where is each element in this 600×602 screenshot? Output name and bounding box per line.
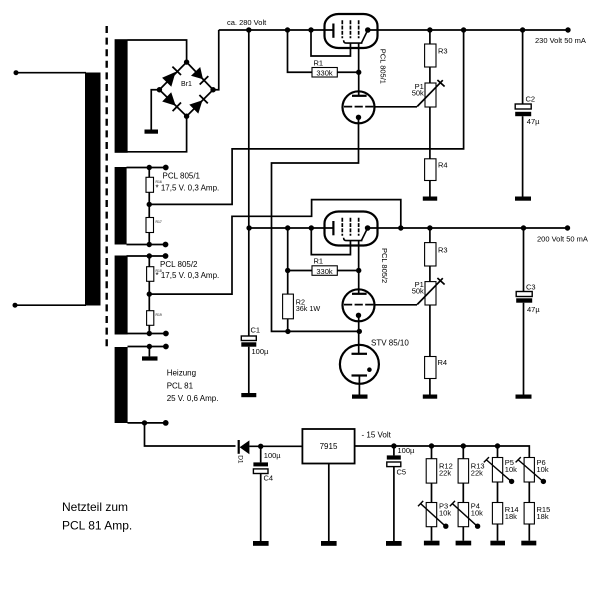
svg-text:330k: 330k [316,69,333,78]
svg-text:STV 85/10: STV 85/10 [371,339,409,348]
svg-text:50k: 50k [412,287,424,296]
svg-text:10k: 10k [537,465,549,474]
ground under P6/R15 [521,541,536,546]
ground under R4 lower [423,395,437,399]
svg-text:- 15 Volt: - 15 Volt [362,430,392,439]
wire rail1 left segment [219,29,334,31]
potentiometer P1 upper [425,83,436,107]
transformer secondary winding 3 [115,256,128,335]
wire pentode2 anode to node [358,241,360,271]
ground under STV [352,395,368,399]
node triode2 anode junction [357,329,362,334]
svg-text:200 Volt 50 mA: 200 Volt 50 mA [537,235,588,244]
wire P1 lower to R4 lower [429,305,431,357]
wire R3 to P1 [429,67,431,83]
svg-text:* 17,5 V. 0,3 Amp.: * 17,5 V. 0,3 Amp. [156,271,220,280]
node rail1 x430 [427,27,432,32]
wire rail2 right segment [368,227,568,229]
wire STV to ground [358,376,360,395]
svg-text:10k: 10k [439,508,451,517]
potentiometer P3 10k [426,503,437,527]
resistor heater divider 2a [148,168,150,178]
ground under C1 [241,393,256,397]
resistor R4 lower [425,357,436,379]
node rail2 x430 [427,225,432,230]
resistor R3 upper [425,44,436,67]
ground under 7915 [321,541,337,546]
node rail2 end terminal [565,225,570,230]
svg-text:R3: R3 [438,245,448,254]
node rail1 x249 [246,27,251,32]
wire rail2 left segment [249,227,334,229]
svg-text:7915: 7915 [320,442,338,451]
svg-text:C1: C1 [251,326,261,335]
ground winding4 [142,356,158,360]
svg-text:* 17,5 V. 0,3 Amp.: * 17,5 V. 0,3 Amp. [156,184,220,193]
node rail2 x249 [246,225,251,230]
diode bridge top-right [191,67,203,79]
svg-text:R17: R17 [156,220,162,224]
wire P1 to R4 [429,107,431,159]
svg-text:10k: 10k [505,465,517,474]
node rail2 x287 [285,225,290,230]
node rail2 x523 [521,225,526,230]
ground under C2 [515,197,531,201]
wire line C from rail1 to winding2 tap [149,30,463,204]
node rail1 x463 [461,27,466,32]
svg-text:Heizung: Heizung [167,369,196,378]
tube pentode PCL805/1 [325,14,378,48]
svg-text:PCL 805/1: PCL 805/1 [163,172,201,181]
wire rail1 to R3 [429,30,431,44]
tube triode PCL805/1 [343,91,376,123]
wire winding3 bottom lead [127,333,166,335]
potentiometer P5 10k [497,446,499,458]
node rail1 x522 [520,27,525,32]
svg-text:D1: D1 [237,455,244,464]
svg-text:22k: 22k [471,469,483,478]
diode bridge bottom-right [189,100,202,113]
node primary top terminal [14,70,19,75]
node rail2 x311 [309,225,314,230]
svg-text:230 Volt 50 mA: 230 Volt 50 mA [535,36,586,45]
node R2 bottom junction [285,329,290,334]
bridge rectifier Br1 [157,59,216,119]
capacitor C4 [260,446,262,462]
diode bridge top-left [162,72,176,87]
wire triode2 grid lead [375,304,418,306]
transformer primary winding [85,73,101,306]
transformer secondary winding 2 [115,167,127,245]
ground under P5/R14 [490,541,505,546]
tube pentode PCL805/2 [325,212,378,246]
node bridge bottom [184,114,189,119]
svg-text:100µ: 100µ [398,446,416,455]
tube triode PCL805/2 [343,289,376,321]
transformer core dashed line [105,26,107,347]
wire triode1 anode path [272,117,360,331]
svg-text:C4: C4 [264,473,274,482]
svg-text:47µ: 47µ [527,117,540,126]
wire winding1 top lead [128,40,187,62]
svg-text:18k: 18k [537,512,549,521]
node primary bottom terminal [13,303,18,308]
wire triode2 anode lead to STV [358,315,360,354]
resistor heater divider 3b [147,311,154,326]
capacitor C3 [523,228,525,292]
svg-text:R1: R1 [314,257,324,266]
svg-text:22k: 22k [439,469,451,478]
wire 7915 output rail [355,446,530,458]
node R13 junction [461,443,466,448]
wire primary top [16,72,86,74]
node R1/1 right junction [356,70,361,75]
ground under C4 [253,541,269,546]
svg-text:100µ: 100µ [252,347,270,356]
wire g2 loop tube2 [311,228,350,255]
svg-text:10k: 10k [471,508,483,517]
wire winding4 top lead [128,346,166,348]
wire triode2 cathode lead [358,271,360,294]
node R1/2 right junction [356,268,361,273]
resistor R15 18k [524,503,534,525]
node bridge right [210,87,215,92]
resistor R3 lower [425,243,436,266]
node P5 junction [495,443,500,448]
wire primary bottom [15,304,86,306]
resistor R12 22k [431,446,433,459]
potentiometer P6 10k [524,458,534,483]
node rail1 x311 [308,27,313,32]
ground under R13/P4 [456,541,472,546]
wire winding4 to D1 [145,423,236,446]
wire 7915 ground lead [328,464,330,542]
svg-text:PCL 805/2: PCL 805/2 [380,248,389,283]
wire winding3 tap step line [149,200,400,295]
svg-text:R19: R19 [156,313,162,317]
resistor R13 22k [462,446,464,459]
svg-text:Br1: Br1 [181,81,192,88]
wire R1/2 right [337,270,358,272]
ground under R4 upper [423,197,437,201]
svg-text:C5: C5 [397,467,407,476]
wire winding4 ground stub [148,347,150,357]
wire winding1 bottom lead [128,116,187,152]
diode bridge bottom-left [162,92,176,105]
svg-text:ca. 280 Volt: ca. 280 Volt [227,18,267,27]
wire winding3 top lead [127,255,166,257]
svg-text:Netzteil zum: Netzteil zum [62,500,128,514]
svg-text:PCL 81: PCL 81 [167,382,194,391]
resistor heater divider 3a [148,256,150,267]
regulator 7915 [302,429,354,464]
wire R1/2 feed [288,228,312,271]
wire D1 to 7915 [249,445,302,447]
resistor heater divider 2b [146,218,154,233]
svg-text:C2: C2 [526,95,536,104]
wire R1/1 right [337,71,358,73]
resistor R14 18k [492,503,502,525]
node C4 junction [258,444,263,449]
wire winding2 bottom lead [127,244,166,246]
resistor R1 (330k) upper [312,68,337,78]
resistor R1 (330k) lower [312,266,337,276]
potentiometer P4 10k [458,503,469,527]
svg-text:PCL 805/2: PCL 805/2 [160,260,198,269]
wire winding4 bottom lead [128,422,166,424]
wire triode1 grid lead [375,106,418,108]
transformer secondary winding 1 (HT) [115,39,128,153]
node rail1 end terminal [565,27,570,32]
svg-text:100µ: 100µ [264,451,282,460]
ground under C3 [516,395,532,399]
node R12 junction [429,443,434,448]
node rail1 x287 [285,27,290,32]
resistor R4 upper [425,159,436,181]
transformer secondary winding 4 (Heizung) [115,347,128,423]
node R2 top junction [285,268,290,273]
wire R4 to ground [429,181,431,197]
wire bridge left to ground [151,90,159,130]
node C5 junction [391,443,396,448]
svg-text:R1: R1 [314,59,324,68]
ground under R12/P3 [424,541,440,546]
diode D1 [238,440,240,454]
wire triode1 cathode lead [358,72,360,95]
svg-text:C3: C3 [526,283,536,292]
svg-text:47µ: 47µ [527,305,540,314]
node bridge left [157,87,162,92]
wire pentode1 anode to node [358,43,360,72]
svg-text:50k: 50k [412,89,424,98]
ground under C5 [386,541,402,546]
node bridge top [184,59,189,64]
svg-text:18k: 18k [505,512,517,521]
tube STV 85/10 [340,345,379,384]
wire g2 loop tube1 [311,30,350,56]
node winding2 tap [148,192,150,217]
wire rail1 right segment [368,29,568,31]
wire R1/1 feed [288,30,313,72]
svg-text:PCL 805/1: PCL 805/1 [379,49,388,84]
svg-text:PCL 81 Amp.: PCL 81 Amp. [62,518,132,532]
svg-text:36k 1W: 36k 1W [296,304,321,313]
potentiometer P1 lower [425,282,436,305]
resistor R2 36k 1W [287,271,289,295]
wire vertical A rail1 to C1 [248,30,250,336]
wire winding2 top lead [127,167,166,169]
capacitor C5 [393,446,395,455]
node rail2 x400 [398,225,403,230]
ground under bridge [145,130,159,134]
svg-text:330k: 330k [316,267,333,276]
wire bridge right to rail1 [213,30,219,90]
svg-text:25 V. 0,6 Amp.: 25 V. 0,6 Amp. [167,394,219,403]
svg-text:R4: R4 [438,358,448,367]
capacitor C2 [522,30,524,104]
svg-text:R4: R4 [438,161,448,170]
svg-text:R3: R3 [438,47,448,56]
